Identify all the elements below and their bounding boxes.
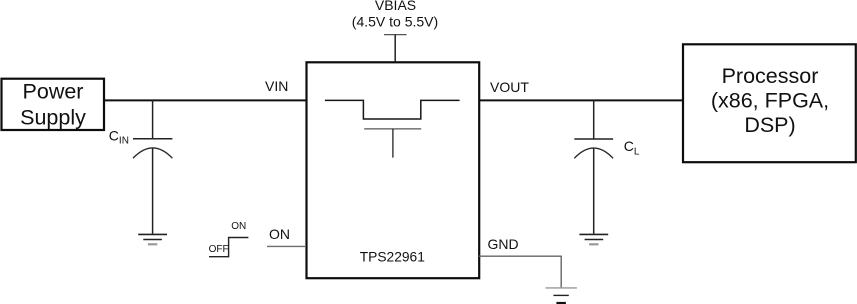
svg-text:GND: GND — [488, 236, 519, 252]
svg-text:(x86, FPGA,: (x86, FPGA, — [711, 89, 829, 113]
svg-text:ON: ON — [269, 226, 290, 242]
svg-text:(4.5V to 5.5V): (4.5V to 5.5V) — [352, 13, 438, 29]
svg-text:VBIAS: VBIAS — [375, 0, 416, 13]
svg-text:VOUT: VOUT — [490, 79, 529, 95]
svg-text:Processor: Processor — [722, 64, 819, 88]
svg-text:OFF: OFF — [209, 244, 229, 255]
svg-text:Power: Power — [23, 80, 84, 104]
svg-text:TPS22961: TPS22961 — [360, 250, 425, 265]
svg-text:ON: ON — [231, 221, 246, 232]
svg-text:VIN: VIN — [265, 78, 288, 94]
svg-text:Supply: Supply — [20, 106, 86, 130]
svg-text:DSP): DSP) — [744, 113, 795, 137]
